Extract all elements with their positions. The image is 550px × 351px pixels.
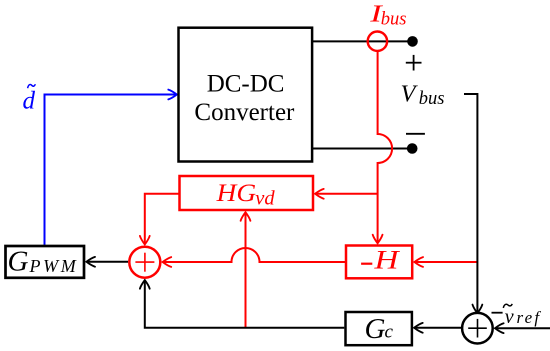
svg-text:bus: bus	[381, 9, 407, 29]
svg-text:G: G	[365, 313, 386, 345]
svg-text:PWM: PWM	[29, 256, 79, 276]
svg-text:H: H	[373, 246, 400, 275]
svg-text:HG: HG	[216, 178, 257, 207]
svg-text:d: d	[23, 87, 36, 114]
svg-text:ref: ref	[517, 308, 542, 327]
svg-text:vd: vd	[255, 188, 275, 210]
svg-text:V: V	[401, 80, 419, 107]
svg-text:bus: bus	[419, 89, 445, 109]
svg-text:v: v	[505, 306, 514, 328]
svg-text:c: c	[385, 322, 394, 343]
svg-text:G: G	[8, 245, 29, 277]
svg-text:DC-DC: DC-DC	[207, 71, 285, 98]
svg-text:Converter: Converter	[194, 99, 295, 126]
